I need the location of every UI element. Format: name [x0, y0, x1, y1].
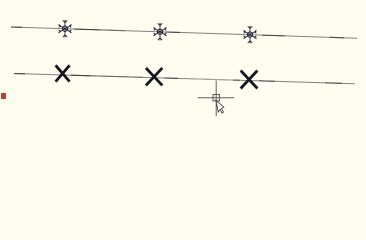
wire: bottom line dark segment h [325, 82, 342, 85]
wire: top line dark segment a [11, 26, 22, 28]
wire: top line dark segment d [165, 31, 180, 33]
point marker X1 [56, 65, 70, 81]
wire: bottom line L2 (base) [14, 74, 355, 84]
point marker P2 (snowflake) [154, 23, 166, 40]
crosshair pickbox [213, 95, 219, 101]
point marker X2 [146, 68, 162, 86]
crosshair cursor: horizontal arm [198, 97, 235, 99]
wire: top line dark segment f [330, 36, 344, 38]
point marker P3 (snowflake) [244, 26, 256, 43]
wire: bottom line medium segment c [90, 76, 143, 78]
hidden-alpha red marker square (shows when alpha dropped) [1, 93, 6, 99]
wire: bottom line dark segment g [259, 80, 275, 82]
wire: top line dark segment e [262, 34, 285, 37]
wire: bottom line dark segment a [14, 73, 25, 75]
point marker X3 [241, 71, 258, 89]
point marker P1 (snowflake) [59, 20, 71, 37]
wire: bottom line dark segment d [164, 77, 178, 79]
wire: bottom line dark segment f [233, 79, 240, 81]
wire: top line medium segment c [100, 29, 125, 32]
wire: bottom line dark segment b [71, 74, 90, 77]
wire: top line dark segment b [74, 28, 100, 31]
crosshair cursor: vertical arm [215, 81, 217, 117]
mouse arrow cursor [216, 100, 224, 113]
wire: bottom line light segment e [195, 79, 233, 80]
wire: top line L1 (base) [11, 27, 357, 38]
